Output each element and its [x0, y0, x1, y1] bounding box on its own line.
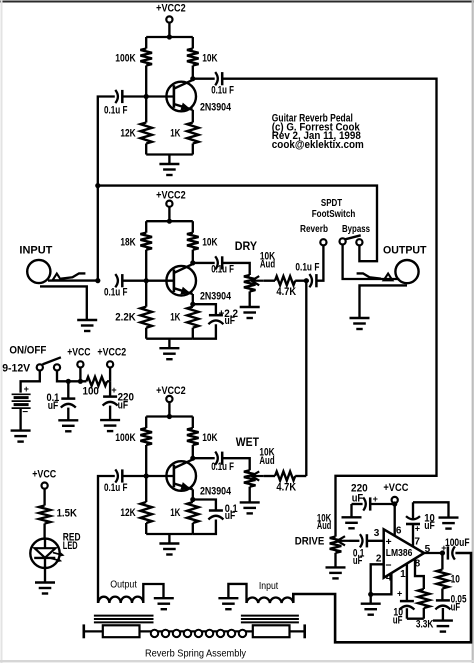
node: 0.1uF filter junction — [66, 379, 71, 384]
+VCC2 terminal stage1 — [156, 2, 186, 37]
wire: pole to output jack — [343, 245, 400, 280]
ground (WET pot) — [240, 487, 260, 514]
switch lever — [345, 235, 361, 239]
reverb tank right terminal — [303, 624, 306, 638]
svg-text:FootSwitch: FootSwitch — [312, 208, 356, 220]
ground (output transformer) — [154, 598, 174, 609]
label Reverb — [300, 223, 328, 235]
resistor 1.5K (LED) — [39, 489, 77, 539]
wire: pin 2 to ground / pin 4 — [371, 564, 392, 594]
+VCC2 terminal stage2 — [156, 190, 186, 222]
wire: pin7 bypass to ground — [413, 502, 449, 517]
switch S1 ON/OFF — [37, 357, 61, 370]
svg-text:10K: 10K — [202, 432, 217, 444]
wire: stage2 supply rail — [146, 220, 193, 222]
resistor 100K (stage3 upper-left) — [115, 417, 152, 477]
svg-text:2: 2 — [376, 553, 382, 564]
wire: stage1 ground rail — [146, 153, 193, 155]
resistor 4.7K (dry mix) — [264, 276, 307, 298]
reverb tank right transducer — [253, 625, 290, 637]
output jack J2 — [395, 260, 418, 283]
svg-text:100uF: 100uF — [445, 537, 470, 549]
terminal +VCC2 (power) — [97, 346, 126, 381]
wire: output pin 5 — [424, 552, 445, 554]
node: stage3 base junction — [144, 473, 149, 478]
node: stage2 emitter junction — [190, 302, 195, 307]
node: VCC decoupling junction — [392, 501, 397, 506]
svg-text:0.1u F: 0.1u F — [211, 461, 234, 473]
pin 8 label — [415, 559, 421, 570]
pin 7 label — [414, 536, 420, 547]
reverb tank spring line — [84, 630, 305, 632]
wire: stage1 output to LM386 drive pot (long run) — [222, 79, 436, 537]
battery B1 9-12V — [12, 384, 31, 418]
svg-text:+: + — [386, 536, 392, 548]
wire: stage1 input cap to base — [122, 95, 146, 97]
capacitor 0.1uF (VCC filter) — [47, 381, 76, 420]
svg-text:cook@eklektix.com: cook@eklektix.com — [272, 139, 364, 151]
wire: stage2 output cap to DRY pot — [222, 263, 249, 275]
capacitor 10uF (gain, pin 1) — [393, 564, 415, 627]
node: input junction — [95, 278, 100, 283]
wire: input tip to input node — [48, 279, 98, 281]
wire: stage1 input down the left side — [98, 97, 115, 281]
svg-text:uF: uF — [353, 555, 363, 567]
capacitor 220uF (VCC2 filter) — [103, 381, 134, 420]
wire: stage2 ground rail — [146, 338, 193, 340]
svg-text:Reverb: Reverb — [300, 223, 328, 235]
terminal: footswitch pole — [340, 238, 346, 244]
svg-text:INPUT: INPUT — [19, 245, 52, 257]
svg-text:1.5K: 1.5K — [57, 507, 77, 519]
resistor 100K (stage1 upper-left) — [115, 37, 152, 97]
pin 2 label — [376, 553, 382, 564]
transistor Q3 2N3904 — [146, 459, 231, 497]
node: stage2 base junction — [144, 278, 149, 283]
svg-text:Input: Input — [259, 580, 278, 592]
svg-text:0.1u F: 0.1u F — [211, 85, 234, 97]
node: stage1 rail junction — [167, 34, 172, 39]
wire: switch to battery — [21, 371, 40, 393]
svg-text:+VCC2: +VCC2 — [156, 190, 186, 202]
svg-text:7: 7 — [414, 536, 420, 547]
terminal +VCC — [67, 346, 90, 381]
wire: pin 8 to gain network — [415, 559, 424, 589]
label 0.1uF (stage2 output) — [211, 264, 234, 276]
potentiometer 10K Aud (WET level) — [244, 447, 275, 487]
resistor 1K (stage3 emitter) — [170, 489, 198, 534]
pin 6 label — [396, 526, 402, 537]
ground (stage1) — [159, 155, 179, 176]
ground (stage3) — [159, 534, 179, 555]
resistor 12K (stage1 lower-left) — [120, 97, 152, 155]
svg-text:Aud: Aud — [259, 455, 274, 467]
ground (input transformer) — [218, 598, 238, 609]
svg-text:1K: 1K — [170, 312, 180, 324]
label Input (transformer) — [259, 580, 278, 592]
wire: input jack sleeve to ground — [40, 286, 87, 320]
reverb tank left transducer — [103, 625, 140, 637]
svg-text:Aud: Aud — [260, 259, 275, 271]
svg-text:uF: uF — [118, 400, 129, 412]
wire: output jack sleeve to ground — [360, 285, 408, 318]
wire: stage3 input cap to base — [122, 475, 146, 477]
wire: stage1 supply rail — [146, 36, 193, 38]
svg-text:+VCC2: +VCC2 — [97, 346, 126, 358]
output transformer core — [94, 616, 154, 623]
svg-text:uF: uF — [48, 400, 59, 412]
terminal +VCC (LED) — [32, 468, 56, 488]
node: +VCC junction — [78, 379, 83, 384]
svg-text:+: + — [373, 494, 378, 504]
capacitor 0.1uF (stage1 output) — [215, 72, 222, 85]
ground (LED) — [35, 583, 55, 594]
svg-text:2N3904: 2N3904 — [200, 102, 232, 114]
label DRIVE — [295, 536, 325, 548]
resistor 2.2K (stage2 lower-left) — [115, 281, 152, 339]
ground (output jack) — [350, 318, 370, 329]
pin 5 label — [425, 544, 431, 555]
wire: output transformer right lead to ground — [143, 584, 163, 603]
svg-text:LM386: LM386 — [386, 547, 413, 559]
node: stage1 base junction — [144, 94, 149, 99]
svg-text:4.7K: 4.7K — [276, 286, 296, 298]
node: output junction — [440, 550, 445, 555]
wire: 100uF to reverb input transformer — [293, 553, 471, 642]
+VCC2 terminal stage3 — [156, 385, 186, 417]
svg-text:0.1u F: 0.1u F — [104, 482, 128, 494]
wire: stage2 collector to output cap — [193, 262, 215, 264]
wire: power rail — [57, 371, 110, 382]
capacitor 0.1uF (LM386 input) — [350, 534, 367, 567]
ground (Zobel) — [433, 621, 453, 632]
terminal +VCC (LM386) — [383, 482, 408, 503]
resistor 10 (Zobel) — [437, 553, 460, 600]
label Reverb Spring Assembly — [145, 647, 247, 659]
resistor 3.3K (gain) — [416, 589, 434, 631]
svg-text:10: 10 — [451, 574, 460, 586]
label WET — [236, 435, 260, 449]
wire: gain network bottom — [407, 618, 424, 620]
wire: stage3 input from reverb output transformer — [98, 476, 115, 603]
wire: stage3 supply rail — [146, 415, 193, 417]
transistor Q2 2N3904 — [146, 264, 231, 302]
label Bypass — [342, 223, 370, 235]
ground (220uF) — [342, 504, 362, 528]
svg-text:DRIVE: DRIVE — [295, 536, 325, 548]
svg-text:10K: 10K — [202, 237, 217, 249]
op-amp U1 LM386 — [384, 529, 424, 578]
svg-text:6: 6 — [396, 526, 402, 537]
svg-text:9-12V: 9-12V — [2, 363, 31, 375]
reverb output transformer coil — [98, 597, 143, 603]
ground (stage2) — [159, 339, 179, 360]
svg-text:+VCC2: +VCC2 — [156, 385, 186, 397]
capacitor 0.05uF (Zobel) — [435, 594, 466, 621]
svg-text:Bypass: Bypass — [342, 223, 370, 235]
ground (input jack) — [77, 320, 97, 331]
capacitor 100uF (output) — [441, 537, 469, 559]
capacitor +2.2uF (stage2 emitter bypass) — [193, 304, 238, 339]
svg-text:100K: 100K — [115, 53, 135, 65]
svg-text:+VCC: +VCC — [383, 482, 408, 494]
title text block — [272, 113, 364, 151]
reverb tank left terminal — [83, 624, 86, 638]
svg-text:0.1u F: 0.1u F — [104, 105, 128, 117]
label 9-12V — [2, 363, 31, 375]
input transformer core — [241, 616, 299, 623]
wire: stage3 ground rail — [146, 533, 193, 535]
capacitor 0.1uF (stage3 output) — [215, 452, 222, 465]
wire: stage2 input cap to base — [122, 280, 146, 282]
svg-text:+VCC2: +VCC2 — [156, 2, 186, 14]
svg-text:0.1u F: 0.1u F — [104, 287, 128, 299]
capacitor 0.1uF (stage3 emitter bypass) — [193, 500, 238, 535]
svg-text:uF: uF — [225, 510, 236, 522]
wire: stage3 collector to output cap — [193, 457, 215, 459]
wire: stage1 collector to output cap — [193, 78, 215, 80]
node: dry/wet mix junction — [304, 278, 309, 283]
svg-text:Aud: Aud — [317, 520, 331, 532]
capacitor 220uF (LM386 VCC) — [351, 482, 395, 510]
ground (0.1uF filter) — [58, 420, 78, 431]
resistor 1K (stage2 emitter) — [170, 294, 198, 339]
wire: mix cap up to Reverb contact — [317, 245, 324, 280]
svg-text:+: + — [441, 543, 446, 553]
node: stage3 emitter junction — [190, 497, 195, 502]
svg-text:10K: 10K — [202, 53, 217, 65]
svg-text:Output: Output — [110, 579, 137, 591]
capacitor 0.1uF (stage1 input) — [104, 90, 128, 117]
svg-text:1K: 1K — [170, 128, 180, 140]
terminal: Reverb contact — [320, 239, 326, 245]
capacitor 0.1uF (stage3 input) — [104, 469, 128, 494]
ground (DRIVE pot) — [326, 553, 346, 579]
label 0.1uF (stage1 output) — [211, 85, 234, 97]
pin 4 label — [386, 573, 392, 584]
output jack tip contact — [357, 273, 393, 280]
ground (DRY pot) — [240, 291, 260, 318]
svg-text:+VCC: +VCC — [32, 468, 56, 480]
svg-text:WET: WET — [236, 435, 260, 449]
potentiometer 10K Aud (DRIVE) — [317, 512, 350, 553]
label INPUT — [19, 245, 52, 257]
svg-text:Reverb Spring Assembly: Reverb Spring Assembly — [145, 647, 247, 659]
resistor 12K (stage3 lower-left) — [120, 476, 152, 534]
svg-text:LED: LED — [63, 540, 78, 552]
svg-text:DRY: DRY — [235, 239, 257, 253]
svg-text:−: − — [22, 407, 28, 418]
capacitor 0.1uF (mix to footswitch) — [295, 262, 319, 288]
svg-text:3.3K: 3.3K — [416, 619, 434, 631]
terminal: Bypass contact — [356, 239, 362, 245]
svg-text:uF: uF — [352, 492, 364, 504]
svg-text:1: 1 — [400, 569, 406, 580]
svg-text:0.1u F: 0.1u F — [211, 264, 234, 276]
node: pin2/pin4 ground junction — [368, 592, 373, 597]
pin 3 label — [374, 528, 380, 539]
resistor 10K (stage1 collector load) — [187, 37, 218, 79]
svg-text:+: + — [397, 589, 402, 599]
label ON/OFF — [9, 345, 46, 357]
svg-text:1K: 1K — [170, 507, 180, 519]
svg-text:12K: 12K — [120, 127, 135, 139]
wire: battery to ground — [19, 408, 21, 431]
wire: stage3 output cap to WET pot — [222, 458, 249, 470]
svg-text:uF: uF — [451, 602, 461, 614]
svg-text:uF: uF — [424, 520, 435, 532]
transistor Q1 2N3904 — [146, 80, 231, 114]
node: stage2 rail junction — [167, 219, 172, 224]
svg-text:+: + — [111, 385, 116, 395]
label OUTPUT — [383, 244, 427, 256]
svg-text:uF: uF — [225, 315, 236, 327]
wire: input to bypass contact — [98, 186, 377, 262]
svg-text:+: + — [415, 524, 420, 534]
svg-text:+: + — [24, 384, 29, 394]
label 0.1uF (stage3 output) — [211, 461, 234, 473]
wire: VCC to pin 6 — [394, 503, 396, 536]
reverb input transformer coil — [247, 598, 294, 603]
input jack J1 — [27, 260, 50, 283]
label DRY — [235, 239, 257, 253]
svg-text:2.2K: 2.2K — [115, 312, 135, 324]
ground (pin7 bypass) — [439, 518, 459, 529]
ground (LM386 pins 2,4) — [361, 594, 381, 614]
svg-text:3: 3 — [374, 528, 380, 539]
capacitor 0.1uF (stage2 output) — [215, 256, 222, 269]
svg-text:OUTPUT: OUTPUT — [383, 244, 427, 256]
svg-text:100K: 100K — [115, 432, 135, 444]
pin 1 label — [400, 569, 406, 580]
svg-text:+VCC: +VCC — [67, 346, 90, 358]
node: stage2 collector junction — [190, 260, 195, 265]
resistor 18K (stage2 upper-left) — [120, 221, 152, 281]
ground (battery) — [11, 431, 31, 442]
reverb tank springs — [151, 630, 246, 637]
wire: input cap to pin 3 — [367, 540, 384, 542]
label RED LED — [63, 531, 81, 552]
svg-text:uF: uF — [393, 615, 403, 627]
svg-text:2N3904: 2N3904 — [200, 486, 232, 498]
resistor 100 (supply filter) — [83, 377, 108, 398]
svg-text:18K: 18K — [120, 237, 135, 249]
node: stage1 collector junction — [190, 76, 195, 81]
resistor 10K (stage3 collector load) — [187, 417, 218, 459]
wire: input transformer left lead to ground — [228, 584, 246, 603]
resistor 10K (stage2 collector load) — [187, 221, 218, 263]
input jack tip contact — [53, 273, 86, 280]
ground (220uF filter) — [100, 420, 120, 431]
LED D1 — [30, 539, 64, 583]
svg-text:12K: 12K — [120, 507, 135, 519]
svg-text:100: 100 — [83, 385, 99, 397]
wire: wet channel to mix junction — [305, 281, 307, 476]
node: input/bypass junction — [95, 183, 100, 188]
svg-text:0.1u F: 0.1u F — [295, 262, 319, 274]
svg-text:ON/OFF: ON/OFF — [9, 345, 46, 357]
resistor 1K (stage1 emitter) — [170, 110, 198, 155]
label SPDT FootSwitch — [312, 197, 356, 220]
capacitor 10uF (pin 7 bypass) — [406, 502, 435, 547]
svg-text:2N3904: 2N3904 — [200, 290, 232, 302]
node: stage3 rail junction — [167, 414, 172, 419]
node: stage3 collector junction — [190, 456, 195, 461]
svg-text:−: − — [385, 559, 391, 571]
capacitor 0.1uF (stage2 input) — [104, 274, 128, 299]
svg-text:4.7K: 4.7K — [276, 482, 296, 494]
label Output (transformer) — [110, 579, 137, 591]
potentiometer 10K Aud (DRY level) — [244, 250, 275, 291]
resistor 4.7K (wet mix) — [264, 472, 307, 494]
